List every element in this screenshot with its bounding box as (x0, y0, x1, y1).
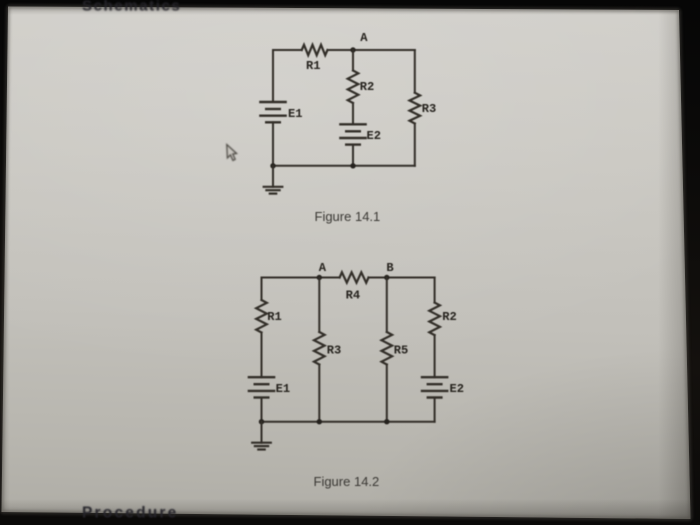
node A (fig 14.1) (350, 31, 368, 53)
svg-text:E2: E2 (450, 382, 465, 396)
junction dot fig2 bottom node A (317, 419, 322, 424)
svg-text:R4: R4 (346, 289, 361, 303)
partial heading "Schematics" cut by top edge (82, 0, 181, 14)
svg-text:R3: R3 (422, 102, 437, 116)
battery E2 (fig 14.1) (340, 124, 381, 144)
svg-text:R1: R1 (306, 59, 321, 73)
svg-text:E1: E1 (288, 107, 303, 121)
resistor R2 (fig 14.1) (348, 71, 375, 104)
resistor R1 (fig 14.1) (302, 45, 328, 73)
junction dot fig2 bottom-left (259, 419, 264, 424)
resistor R5 (fig 14.2) (382, 332, 409, 365)
resistor R1 (fig 14.2) (256, 300, 282, 333)
svg-text:Procedure: Procedure (82, 504, 178, 521)
wire: fig2 right rail between R2 and E2 (434, 335, 436, 377)
wire: fig2 top wire right of R4 (369, 277, 435, 279)
resistor R2 (fig 14.2) (429, 303, 456, 336)
wire: fig2 left rail upper (261, 278, 263, 301)
svg-text:R5: R5 (394, 344, 409, 358)
wire: fig1 top wire from R1 to right corner (328, 49, 415, 51)
wire: fig2 node-B rail lower (386, 365, 388, 422)
wire: fig1 middle rail between R2 and E2 (352, 103, 354, 124)
svg-text:A: A (360, 31, 368, 45)
svg-text:E1: E1 (276, 382, 291, 396)
node B (fig 14.2) (384, 261, 394, 280)
wire: fig1 right rail lower (414, 124, 416, 166)
svg-text:Figure 14.2: Figure 14.2 (314, 474, 380, 489)
wire: fig1 middle rail lower (352, 145, 354, 166)
battery E1 (fig 14.2) (249, 377, 290, 397)
svg-text:B: B (386, 261, 393, 275)
junction dot fig1 bottom-middle (350, 163, 355, 168)
svg-text:R3: R3 (327, 344, 342, 358)
wire: fig2 node-A rail lower (318, 365, 320, 422)
wire: fig2 bottom wire (262, 421, 435, 423)
svg-text:R1: R1 (267, 310, 282, 324)
wire: fig1 left rail lower (272, 122, 274, 166)
svg-text:E2: E2 (367, 129, 382, 143)
ground (fig 14.1) (264, 166, 283, 194)
svg-text:A: A (319, 261, 327, 275)
wire: fig2 right rail upper (434, 278, 436, 303)
wire: fig2 top wire left of R4 (262, 277, 340, 279)
node A (fig 14.2) (317, 261, 327, 280)
wire: fig2 node-B rail upper (386, 278, 388, 333)
svg-text:Schematics: Schematics (82, 0, 181, 14)
mouse cursor (227, 145, 237, 161)
wire: fig1 left rail upper (272, 50, 274, 102)
partial heading "Procedure" cut by bottom edge (82, 504, 178, 521)
ground (fig 14.2) (252, 422, 271, 450)
wire: fig1 top-left segment (273, 49, 302, 51)
wire: fig2 left rail between R1 and E1 (261, 333, 263, 378)
wire: fig1 middle rail upper (node A to R2) (352, 50, 354, 71)
junction dot fig2 bottom node B (384, 419, 389, 424)
battery E1 (fig 14.1) (260, 102, 302, 122)
svg-text:R2: R2 (442, 310, 457, 324)
resistor R3 (fig 14.2) (314, 332, 341, 365)
battery E2 (fig 14.2) (422, 377, 464, 397)
junction dot fig1 bottom-left (270, 163, 275, 168)
wire: fig2 right rail lower (434, 398, 436, 422)
wire: fig1 bottom wire (273, 165, 415, 167)
svg-text:Figure 14.1: Figure 14.1 (315, 209, 381, 224)
resistor R3 (fig 14.1) (410, 93, 437, 124)
svg-text:R2: R2 (360, 80, 375, 94)
wire: fig1 right rail upper (414, 50, 416, 93)
wire: fig2 node-A rail upper (318, 278, 320, 333)
wire: fig2 left rail lower (261, 398, 263, 422)
resistor R4 (fig 14.2) (340, 272, 369, 302)
